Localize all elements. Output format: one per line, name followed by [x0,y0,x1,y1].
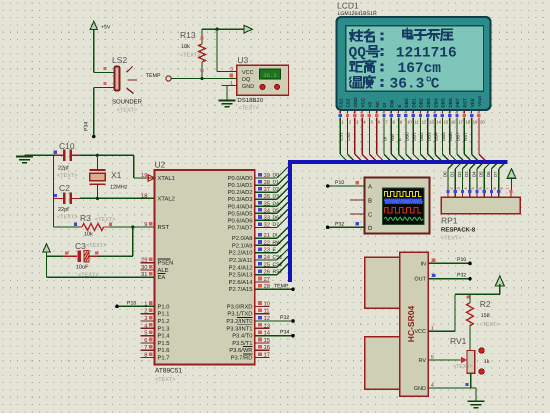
svg-text:IN: IN [421,261,427,267]
wire left rail [53,155,55,227]
svg-text:U2: U2 [155,160,166,170]
HC-SR04 pin 2 IN [421,258,444,268]
wire D0 to bus [255,167,288,179]
svg-text:XTAL1: XTAL1 [158,176,175,182]
LCD body [337,17,491,110]
svg-text:GND: GND [414,386,426,392]
svg-text:D7: D7 [273,222,280,228]
LCD pin 4 VCC [360,97,368,160]
oscilloscope pin B [350,198,372,205]
LCD text line2 [349,46,457,62]
svg-text:P0.0/AD0: P0.0/AD0 [228,175,253,182]
svg-text:P34: P34 [84,122,90,131]
svg-text:OUT: OUT [414,277,426,283]
power +5V arrow left [43,244,50,277]
pin 2 P1.1 [140,308,169,318]
svg-text:C: C [368,212,373,219]
LCD pin 19 VEE [470,98,478,160]
HC-SR04 pin 1 VCC [414,326,443,336]
wire D7 to bus [255,216,288,228]
svg-text:6: 6 [478,187,482,189]
svg-text:DB6: DB6 [448,98,453,108]
wire C10 to XTAL1 [80,154,155,178]
pin 11 P3.1/TXD [227,309,269,318]
LCD pin 20 -Vout [477,96,485,161]
LCD pin 15 DB5 [441,98,449,160]
svg-text:D4: D4 [273,201,280,207]
pin 9 RST [144,221,169,231]
svg-text:P0.4/AD4: P0.4/AD4 [228,203,254,210]
svg-text:18: 18 [466,120,471,125]
LCD LCD1 LGM12641BS1R [337,1,377,17]
pin 27 P2.6/A14 [229,276,270,286]
svg-text:P0.2/AD2: P0.2/AD2 [228,189,253,196]
svg-text:RW: RW [390,133,395,141]
svg-text:AT89C51: AT89C51 [155,368,182,375]
power +5V arrow right [495,276,504,286]
svg-text:VEE: VEE [470,98,475,107]
svg-text:P0.1/AD1: P0.1/AD1 [228,182,253,189]
svg-text:DB4: DB4 [434,132,439,141]
wire VCC chain [428,284,499,331]
IC U3 DS18B20 [222,55,289,112]
resistor pack RP1 RESPACK-8 [441,197,520,241]
power +5V [90,21,111,30]
svg-text:D6: D6 [486,171,491,177]
svg-text:RW: RW [390,99,395,107]
svg-text:D0: D0 [442,171,447,177]
svg-text:RST: RST [463,98,468,107]
svg-text:R2: R2 [480,299,491,309]
sounder LS2 [103,55,142,114]
svg-text:<TEXT>: <TEXT> [480,322,500,328]
svg-text:3: 3 [230,66,233,72]
svg-text:P3.5/T1: P3.5/T1 [232,340,252,347]
svg-text:D5: D5 [479,171,484,177]
svg-text:1: 1 [505,187,509,189]
pin 24 P2.3/A11 [229,254,271,264]
svg-text:36.3: 36.3 [390,77,425,93]
svg-text:P3.7/RD: P3.7/RD [231,355,253,362]
svg-text:P2.3/A11: P2.3/A11 [229,257,252,264]
svg-text:158: 158 [481,313,490,319]
svg-text:C10: C10 [59,141,75,151]
RP1 pin 4 wire [457,164,468,197]
svg-text:DS18B20: DS18B20 [237,97,263,104]
svg-text:GND: GND [353,97,358,108]
svg-text:D7: D7 [493,171,498,177]
wire +5V to LS2 [94,30,115,73]
svg-text:17: 17 [458,120,463,125]
svg-text:D1: D1 [273,180,280,186]
wire D5 to bus [255,202,288,214]
svg-text:LS2: LS2 [112,55,127,65]
svg-text:D6: D6 [273,215,280,221]
LCD pin 16 DB6 [448,98,456,160]
svg-text:DI: DI [273,233,278,239]
svg-text:P10: P10 [457,257,466,263]
svg-text:DB1: DB1 [411,98,416,108]
svg-text:DB4: DB4 [433,98,438,108]
svg-text:P2.6/A14: P2.6/A14 [229,279,254,286]
pin 18 XTAL2 [141,192,175,202]
svg-text:RV1: RV1 [450,336,467,346]
pin 4 P1.3 [140,323,169,332]
svg-text:P0.5/AD5: P0.5/AD5 [228,210,253,217]
svg-text:NC: NC [375,100,380,107]
resistor R13 10k [180,29,205,78]
pin 10 P3.0/RXD [227,300,270,310]
svg-text:CS1: CS1 [339,132,344,141]
svg-text:EA: EA [158,275,166,281]
RP1 pin 1 +5V [505,169,516,198]
svg-text:P34: P34 [280,329,289,335]
svg-text:CS1: CS1 [338,98,343,107]
svg-text:C: C [431,77,440,93]
svg-text:P1.2: P1.2 [158,318,170,325]
svg-text:P2.1/A9: P2.1/A9 [232,242,253,249]
svg-text:DI: DI [383,137,388,141]
svg-text:VCC: VCC [360,97,365,107]
LCD pin 1 CS1 [338,98,346,160]
svg-text:<TEXT>: <TEXT> [238,106,258,112]
wire ground to C10 [24,154,55,156]
svg-text:20: 20 [480,120,485,125]
oscilloscope [364,178,429,234]
pin 32 P0.7/AD7 [228,222,270,232]
svg-text:DI: DI [382,103,387,108]
svg-text:1k: 1k [484,359,490,365]
pin 22 P2.1/A9 [232,239,270,249]
pin 23 P2.2/A10 [229,247,270,257]
svg-text:P0.7/AD7: P0.7/AD7 [228,225,253,232]
svg-text:P10: P10 [127,300,136,306]
svg-text:P3.0/RXD: P3.0/RXD [227,303,253,310]
svg-text:8: 8 [493,187,497,189]
wire RW to bus [255,234,288,246]
svg-text:P1.5: P1.5 [158,341,170,347]
crystal X1 12MHz [90,155,128,198]
svg-text:RW: RW [273,240,282,246]
wire P34 net [255,329,295,337]
wire D2 to bus [255,181,288,193]
wire TEMP to DQ [171,77,237,80]
pin 17 P3.7/RD [231,352,270,361]
pin 6 P1.5 [140,337,169,347]
oscilloscope pin D [350,225,373,232]
svg-text:DB5: DB5 [441,132,446,141]
RP1 pin 6 wire [471,164,482,197]
LCD pin 18 RST [463,98,471,160]
svg-text:P32: P32 [280,315,289,321]
svg-text:P0.3/AD3: P0.3/AD3 [228,196,253,203]
svg-text:V0: V0 [368,101,373,107]
svg-text:D3: D3 [464,171,469,177]
pin 26 P2.5/A13 [229,269,270,279]
svg-text:D1: D1 [450,171,455,177]
power arrow right [244,25,253,33]
svg-text:P10: P10 [335,180,344,186]
svg-text:ALE: ALE [158,268,169,274]
LCD pin 2 CS2 [346,98,354,160]
svg-text:QQ: QQ [349,46,367,62]
RP1 pin 3 wire [450,164,461,197]
svg-text:<TEXT>: <TEXT> [155,377,175,383]
svg-text:P1.3: P1.3 [158,325,170,332]
pin 14 P3.4/T0 [232,330,271,339]
wire OUT to P32 [428,272,471,280]
svg-text:9: 9 [500,187,504,189]
svg-text:VCC: VCC [242,70,254,76]
svg-text:DB1: DB1 [412,132,417,141]
wire IN to P10 [428,257,471,265]
wire TEMP net [255,284,295,291]
wire to U3 VCC [216,29,218,71]
svg-text:P3.2/INT0: P3.2/INT0 [226,318,252,325]
svg-text:DB0: DB0 [404,98,409,108]
pin 13 P3.3/INT1 [226,322,270,332]
bus [290,162,508,282]
pin 31 EA [141,271,165,281]
svg-text:13: 13 [429,120,434,125]
LCD pin 5 V0 [368,101,376,160]
svg-text:D: D [368,225,373,232]
svg-text:11: 11 [414,120,419,125]
pin 12 P3.2/INT0 [226,315,270,325]
svg-text:10uF: 10uF [76,265,89,271]
svg-text:<TEXT>: <TEXT> [441,236,461,242]
svg-text:<TEXT>: <TEXT> [180,53,200,59]
LCD pin 14 DB4 [433,98,441,160]
HC-SR04 pin 5 RV [418,355,443,365]
svg-text:<TEXT>: <TEXT> [57,215,77,221]
svg-text:RP1: RP1 [441,216,458,226]
svg-text:P3.3/INT1: P3.3/INT1 [226,325,252,332]
svg-text:+5V: +5V [101,24,111,30]
svg-text:P2.0/A8: P2.0/A8 [232,235,253,242]
svg-text:DB2: DB2 [419,132,424,141]
RP1 pin 5 wire [464,164,475,197]
svg-text:3: 3 [457,187,461,189]
svg-text:D2: D2 [457,171,462,177]
svg-text:<TEXT>: <TEXT> [453,364,473,370]
pin 8 P1.7 [140,352,169,362]
pin 7 P1.6 [140,345,169,354]
svg-text:1211716: 1211716 [396,46,457,62]
LCD text line3 [350,60,442,77]
svg-text:19: 19 [141,172,147,179]
svg-text:HC-SR04: HC-SR04 [406,306,416,343]
pin 1 P1.0 [144,301,169,310]
oscilloscope pin A [350,184,372,191]
wire CS1 to bus [255,249,288,261]
svg-text:P2.2/A10: P2.2/A10 [229,250,253,257]
wire P32 to scope D [326,221,364,229]
pin 34 P0.5/AD5 [228,207,271,217]
svg-text:R3: R3 [80,213,91,223]
svg-text:P3.1/TXD: P3.1/TXD [227,311,252,318]
svg-text:D4: D4 [471,171,476,177]
wire R13 top to power arrow [202,28,244,31]
svg-text:22pf: 22pf [58,166,69,172]
svg-text:CS2: CS2 [273,262,283,268]
pin 37 P0.2/AD2 [228,186,270,196]
capacitor C2 22pf [54,183,81,221]
svg-text:P3.6/WR: P3.6/WR [229,347,252,354]
svg-text:P1.7: P1.7 [158,356,170,362]
pin 21 P2.0/A8 [232,232,270,242]
svg-text:D2: D2 [273,187,280,193]
svg-text:5: 5 [471,187,475,189]
svg-text:4: 4 [464,187,468,189]
svg-text:-Vout: -Vout [477,96,482,108]
pin 25 P2.4/A12 [229,261,270,271]
svg-text:36.3: 36.3 [263,72,276,79]
svg-text:D5: D5 [273,208,280,214]
svg-text:P2.7/A15: P2.7/A15 [229,286,253,293]
svg-text:DB6: DB6 [448,132,453,141]
svg-text:A: A [368,184,372,191]
pin 39 P0.0/AD0 [228,172,270,182]
HC-SR04 label [406,306,416,343]
RP1 pin 2 wire [442,164,453,197]
svg-text:RST: RST [463,132,468,141]
pin 30 ALE [140,264,168,274]
wire U3 GND to ground [226,86,228,101]
svg-text:10k: 10k [181,44,190,50]
svg-text:U3: U3 [237,55,248,65]
svg-text:CS2: CS2 [346,132,351,141]
LCD pin 11 DB1 [411,98,419,160]
svg-text:P1.1: P1.1 [158,312,170,318]
svg-text:1: 1 [230,80,233,86]
svg-text:XTAL2: XTAL2 [158,195,175,202]
svg-text:DB7: DB7 [456,132,461,141]
LCD pin 10 DB0 [404,98,412,160]
HC-SR04 pin 3 OUT [414,273,443,283]
svg-text:DB2: DB2 [419,98,424,108]
wire RST junction down to C3 [98,227,133,256]
svg-text:DB3: DB3 [426,132,431,141]
capacitor C3 10uF [47,241,107,279]
svg-text:7: 7 [486,187,490,189]
LCD pin 12 DB2 [419,98,427,160]
svg-text:D0: D0 [273,173,280,179]
pin 3 P1.2 [140,315,169,325]
wire D4 to bus [255,195,288,207]
svg-text:CS1: CS1 [273,255,283,261]
pin 29 PSEN [140,257,173,267]
capacitor C10 22pf [54,141,80,179]
svg-text:C3: C3 [75,241,86,251]
svg-text:<TEXT>: <TEXT> [57,173,77,179]
RP1 pin 9 wire [493,164,504,197]
svg-text:C2: C2 [59,183,70,193]
svg-text:PSEN: PSEN [158,260,174,267]
svg-text:P1.6: P1.6 [158,347,170,354]
svg-text:P1.4: P1.4 [158,334,171,340]
pin 5 P1.4 [140,330,170,339]
IC U2 AT89C51 [155,160,255,384]
svg-text:P32: P32 [457,272,466,278]
wire P10 net [115,300,154,308]
LCD pin 8 RW [390,99,398,160]
svg-text:R13: R13 [180,30,196,40]
pin 16 P3.6/WR [229,344,270,354]
svg-text:VCC: VCC [414,329,426,335]
svg-text:RESPACK-8: RESPACK-8 [441,227,476,234]
wire EA to +5V rail [47,276,155,278]
svg-text:TEMP: TEMP [146,73,161,79]
svg-text:16: 16 [451,120,456,125]
svg-text:RV: RV [418,358,426,364]
svg-text:DQ: DQ [242,77,251,83]
wire DI to bus [255,227,288,239]
svg-text:P0.6/AD6: P0.6/AD6 [228,217,253,224]
LCD text line4 [350,76,440,92]
pin 36 P0.3/AD3 [228,193,270,203]
svg-text:<TEXT>: <TEXT> [117,108,137,114]
svg-text:RST: RST [158,224,170,231]
RP1 pin 8 wire [486,164,497,197]
LCD pin 13 DB3 [426,98,434,160]
svg-text:18: 18 [141,192,147,199]
svg-text:DB7: DB7 [455,98,460,108]
RP1 pin 7 wire [479,164,490,197]
svg-text:P2.4/A12: P2.4/A12 [229,264,253,271]
LCD text line1 [350,29,452,42]
svg-text:12MHz: 12MHz [110,185,128,191]
svg-text:E: E [397,104,402,107]
svg-text:19: 19 [473,120,478,125]
wire C2 to XTAL2 [80,197,155,200]
pin 28 P2.7/A15 [229,283,270,293]
svg-text:E: E [397,138,402,141]
ground under U3 [219,100,236,102]
resistor R3 10k [54,213,155,238]
svg-text:P3.4/T0: P3.4/T0 [232,333,252,340]
wire P10 to scope A [326,180,364,188]
svg-text:B: B [368,198,372,205]
wire D6 to bus [255,209,288,221]
svg-text:DB3: DB3 [426,98,431,108]
LCD pin 9 E [397,104,405,160]
wire D1 to bus [255,174,288,186]
wire P32 net [255,315,295,323]
LCD pin 6 NC [375,100,383,160]
svg-text:<TEXT>: <TEXT> [86,243,106,249]
svg-text:D3: D3 [273,194,280,200]
LCD pin 3 GND [353,97,361,161]
ground bottom right [468,400,485,402]
svg-text:167cm: 167cm [398,61,442,77]
svg-text:P32: P32 [335,221,344,227]
pin 33 P0.6/AD6 [228,214,270,224]
ground top-left [16,155,33,163]
oscilloscope pin C [350,212,373,219]
HC-SR04 pin 4 GND [414,383,443,393]
pin 38 P0.1/AD1 [228,179,270,189]
svg-text:31: 31 [141,271,147,278]
wire RV1 bottom / GND [428,373,476,401]
svg-text:CS2: CS2 [346,98,351,107]
potentiometer RV1 1k [428,336,489,374]
wire D3 to bus [255,188,288,200]
LCD pin 7 DI [382,103,390,160]
wire E to bus [255,242,288,254]
svg-text:10: 10 [407,120,412,125]
svg-text:<TEXT>: <TEXT> [95,217,115,223]
